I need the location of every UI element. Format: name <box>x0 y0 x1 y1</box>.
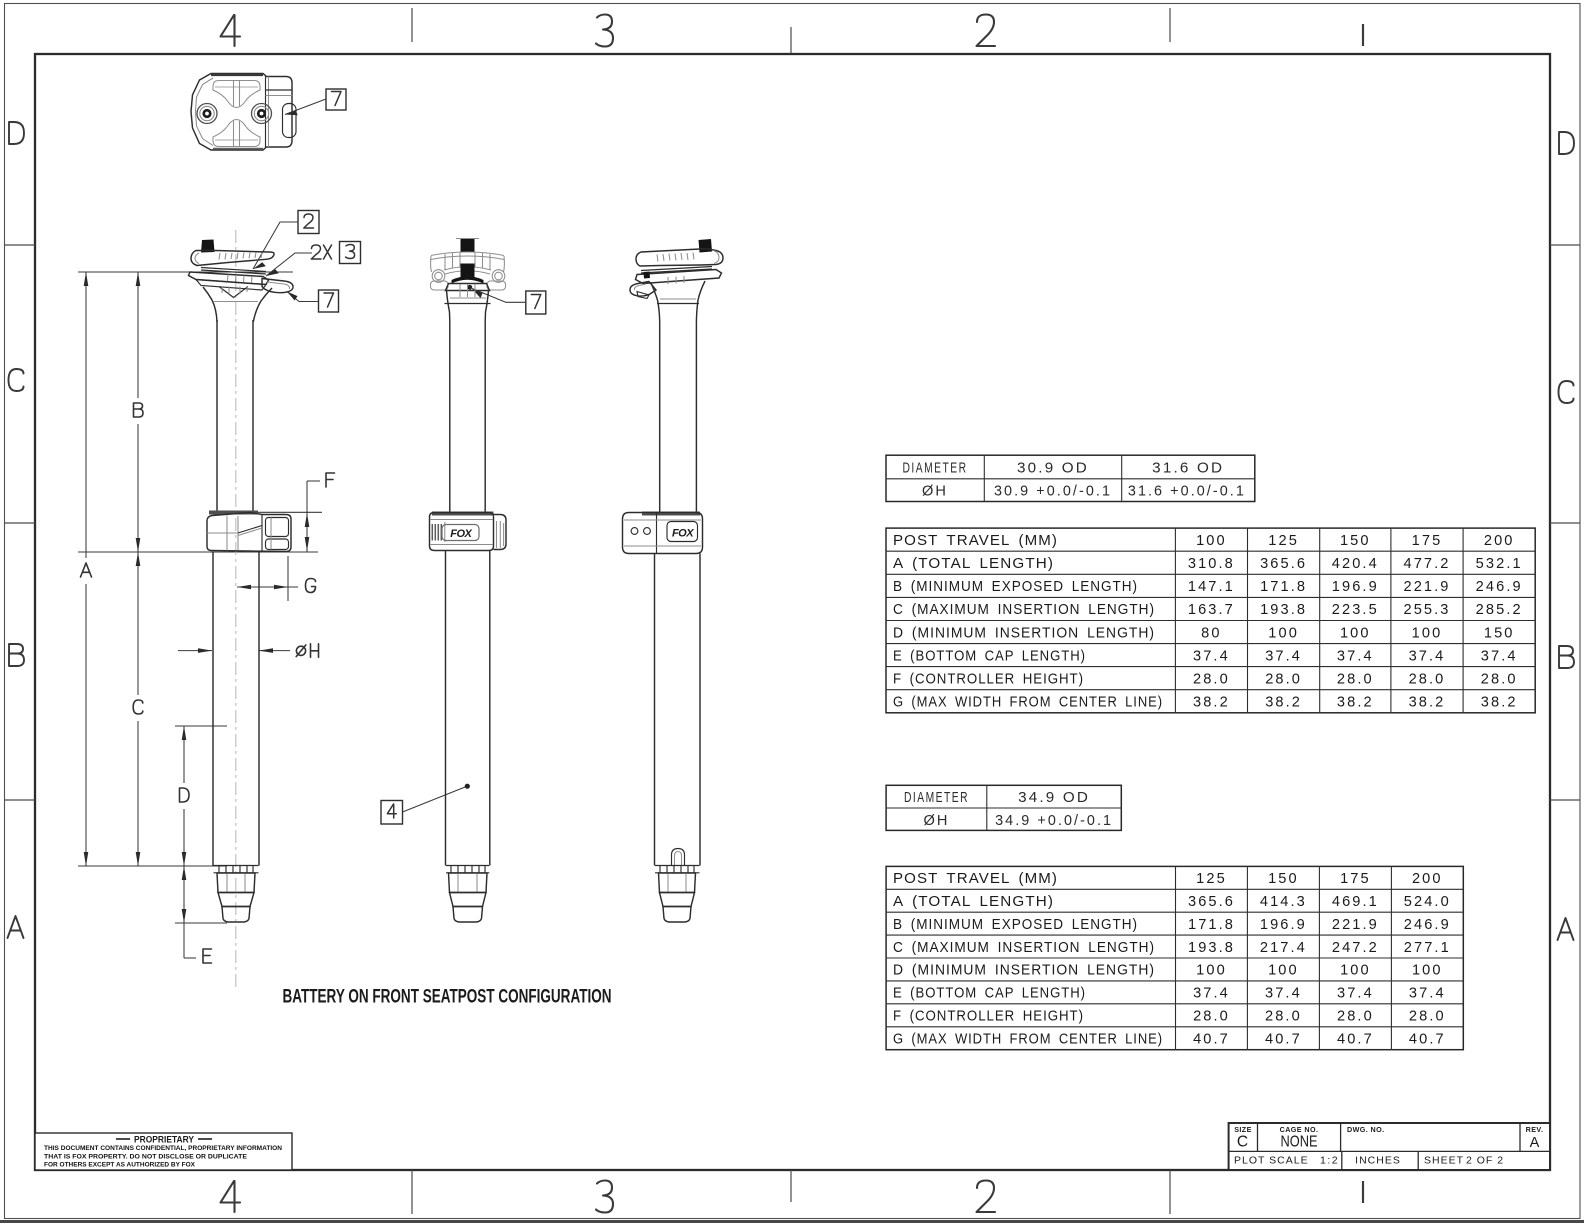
svg-text:125: 125 <box>1268 533 1299 549</box>
svg-text:28.0: 28.0 <box>1265 671 1302 687</box>
svg-text:150: 150 <box>1484 625 1515 641</box>
svg-text:THIS DOCUMENT CONTAINS CONFIDE: THIS DOCUMENT CONTAINS CONFIDENTIAL, PRO… <box>44 1145 282 1152</box>
svg-text:163.7: 163.7 <box>1188 602 1235 618</box>
svg-text:365.6: 365.6 <box>1260 556 1307 572</box>
svg-text:DWG. NO.: DWG. NO. <box>1347 1125 1385 1134</box>
svg-text:217.4: 217.4 <box>1260 940 1307 956</box>
svg-text:40.7: 40.7 <box>1337 1031 1374 1047</box>
svg-text:246.9: 246.9 <box>1404 917 1451 933</box>
svg-text:100: 100 <box>1340 963 1371 979</box>
svg-text:28.0: 28.0 <box>1265 1009 1302 1025</box>
svg-text:38.2: 38.2 <box>1409 695 1446 711</box>
svg-text:150: 150 <box>1268 871 1299 887</box>
svg-text:277.1: 277.1 <box>1404 940 1451 956</box>
svg-text:37.4: 37.4 <box>1409 648 1446 664</box>
svg-text:C (MAXIMUM INSERTION LENGTH): C (MAXIMUM INSERTION LENGTH) <box>893 602 1155 618</box>
svg-text:28.0: 28.0 <box>1193 1009 1230 1025</box>
svg-text:THAT IS FOX PROPERTY. DO NOT: THAT IS FOX PROPERTY. DO NOT DISCLOSE OR… <box>44 1154 248 1161</box>
svg-text:38.2: 38.2 <box>1481 695 1518 711</box>
svg-text:37.4: 37.4 <box>1337 648 1374 664</box>
svg-text:221.9: 221.9 <box>1403 579 1450 595</box>
svg-text:125: 125 <box>1196 871 1227 887</box>
svg-text:G (MAX WIDTH FROM CENTER LINE): G (MAX WIDTH FROM CENTER LINE) <box>893 1031 1163 1047</box>
svg-text:100: 100 <box>1412 625 1443 641</box>
svg-text:365.6: 365.6 <box>1188 894 1235 910</box>
svg-text:100: 100 <box>1196 533 1227 549</box>
svg-text:DIAMETER: DIAMETER <box>903 460 968 476</box>
svg-text:30.9 OD: 30.9 OD <box>1017 460 1089 476</box>
svg-text:28.0: 28.0 <box>1337 671 1374 687</box>
svg-text:40.7: 40.7 <box>1409 1031 1446 1047</box>
svg-text:D (MINIMUM INSERTION LENGTH): D (MINIMUM INSERTION LENGTH) <box>893 625 1155 641</box>
svg-text:196.9: 196.9 <box>1260 917 1307 933</box>
svg-text:1:2: 1:2 <box>1320 1155 1339 1167</box>
svg-text:NONE: NONE <box>1281 1134 1318 1151</box>
svg-text:DIAMETER: DIAMETER <box>904 790 969 806</box>
svg-text:A (TOTAL LENGTH): A (TOTAL LENGTH) <box>893 894 1054 910</box>
svg-text:524.0: 524.0 <box>1404 894 1451 910</box>
svg-text:PLOT SCALE: PLOT SCALE <box>1234 1155 1309 1167</box>
svg-text:100: 100 <box>1268 625 1299 641</box>
svg-text:40.7: 40.7 <box>1265 1031 1302 1047</box>
svg-text:31.6 +0.0/-0.1: 31.6 +0.0/-0.1 <box>1128 484 1246 500</box>
svg-text:532.1: 532.1 <box>1476 556 1523 572</box>
svg-text:196.9: 196.9 <box>1332 579 1379 595</box>
svg-text:B (MINIMUM EXPOSED LENGTH): B (MINIMUM EXPOSED LENGTH) <box>893 579 1138 595</box>
svg-text:80: 80 <box>1201 625 1221 641</box>
svg-text:REV.: REV. <box>1526 1125 1544 1134</box>
svg-text:C (MAXIMUM INSERTION LENGTH): C (MAXIMUM INSERTION LENGTH) <box>893 940 1155 956</box>
svg-text:37.4: 37.4 <box>1409 986 1446 1002</box>
svg-text:A (TOTAL LENGTH): A (TOTAL LENGTH) <box>893 556 1054 572</box>
svg-text:28.0: 28.0 <box>1337 1009 1374 1025</box>
svg-text:ØH: ØH <box>922 484 948 500</box>
svg-text:30.9 +0.0/-0.1: 30.9 +0.0/-0.1 <box>994 484 1112 500</box>
svg-text:34.9 OD: 34.9 OD <box>1018 790 1090 806</box>
svg-text:C: C <box>1237 1134 1248 1151</box>
svg-text:37.4: 37.4 <box>1337 986 1374 1002</box>
svg-text:D (MINIMUM INSERTION LENGTH): D (MINIMUM INSERTION LENGTH) <box>893 963 1155 979</box>
svg-text:150: 150 <box>1340 533 1371 549</box>
svg-text:37.4: 37.4 <box>1193 986 1230 1002</box>
svg-text:BATTERY ON FRONT SEATPOST CONF: BATTERY ON FRONT SEATPOST CONFIGURATION <box>283 986 612 1008</box>
svg-text:100: 100 <box>1412 963 1443 979</box>
svg-text:100: 100 <box>1268 963 1299 979</box>
svg-text:28.0: 28.0 <box>1409 1009 1446 1025</box>
svg-text:193.8: 193.8 <box>1260 602 1307 618</box>
svg-text:SHEET: SHEET <box>1424 1155 1464 1167</box>
svg-text:PROPRIETARY: PROPRIETARY <box>134 1135 195 1146</box>
svg-text:246.9: 246.9 <box>1476 579 1523 595</box>
svg-text:38.2: 38.2 <box>1337 695 1374 711</box>
svg-text:193.8: 193.8 <box>1188 940 1235 956</box>
svg-text:420.4: 420.4 <box>1332 556 1379 572</box>
svg-text:171.8: 171.8 <box>1260 579 1307 595</box>
svg-text:G (MAX WIDTH FROM CENTER LINE): G (MAX WIDTH FROM CENTER LINE) <box>893 695 1163 711</box>
svg-text:310.8: 310.8 <box>1188 556 1235 572</box>
svg-text:F (CONTROLLER HEIGHT): F (CONTROLLER HEIGHT) <box>893 1009 1084 1025</box>
svg-text:171.8: 171.8 <box>1188 917 1235 933</box>
svg-text:POST TRAVEL (MM): POST TRAVEL (MM) <box>893 533 1058 549</box>
svg-text:E (BOTTOM CAP LENGTH): E (BOTTOM CAP LENGTH) <box>893 986 1086 1002</box>
svg-text:28.0: 28.0 <box>1481 671 1518 687</box>
svg-text:FOX: FOX <box>450 528 472 540</box>
svg-text:F (CONTROLLER HEIGHT): F (CONTROLLER HEIGHT) <box>893 671 1084 687</box>
svg-text:100: 100 <box>1340 625 1371 641</box>
svg-text:200: 200 <box>1412 871 1443 887</box>
svg-text:37.4: 37.4 <box>1193 648 1230 664</box>
svg-text:255.3: 255.3 <box>1403 602 1450 618</box>
svg-text:FOR OTHERS EXCEPT AS AUTHORIZE: FOR OTHERS EXCEPT AS AUTHORIZED BY FOX <box>44 1162 196 1169</box>
svg-text:POST TRAVEL (MM): POST TRAVEL (MM) <box>893 871 1058 887</box>
svg-text:28.0: 28.0 <box>1409 671 1446 687</box>
svg-text:37.4: 37.4 <box>1265 648 1302 664</box>
svg-text:469.1: 469.1 <box>1332 894 1379 910</box>
svg-text:221.9: 221.9 <box>1332 917 1379 933</box>
svg-text:34.9 +0.0/-0.1: 34.9 +0.0/-0.1 <box>995 813 1113 829</box>
svg-text:223.5: 223.5 <box>1332 602 1379 618</box>
svg-text:285.2: 285.2 <box>1476 602 1523 618</box>
svg-text:247.2: 247.2 <box>1332 940 1379 956</box>
svg-text:B (MINIMUM EXPOSED LENGTH): B (MINIMUM EXPOSED LENGTH) <box>893 917 1138 933</box>
svg-text:ØH: ØH <box>923 813 949 829</box>
svg-text:31.6 OD: 31.6 OD <box>1152 460 1224 476</box>
svg-text:38.2: 38.2 <box>1193 695 1230 711</box>
svg-text:100: 100 <box>1196 963 1227 979</box>
svg-text:200: 200 <box>1484 533 1515 549</box>
svg-text:INCHES: INCHES <box>1355 1155 1401 1167</box>
svg-text:147.1: 147.1 <box>1188 579 1235 595</box>
svg-text:38.2: 38.2 <box>1265 695 1302 711</box>
svg-text:37.4: 37.4 <box>1481 648 1518 664</box>
svg-text:477.2: 477.2 <box>1403 556 1450 572</box>
svg-text:175: 175 <box>1412 533 1443 549</box>
svg-text:2 OF 2: 2 OF 2 <box>1466 1155 1504 1167</box>
svg-text:414.3: 414.3 <box>1260 894 1307 910</box>
svg-text:37.4: 37.4 <box>1265 986 1302 1002</box>
svg-text:175: 175 <box>1340 871 1371 887</box>
svg-text:FOX: FOX <box>672 528 694 540</box>
svg-text:A: A <box>1530 1135 1540 1151</box>
svg-text:40.7: 40.7 <box>1193 1031 1230 1047</box>
svg-text:28.0: 28.0 <box>1193 671 1230 687</box>
svg-text:E (BOTTOM CAP LENGTH): E (BOTTOM CAP LENGTH) <box>893 648 1086 664</box>
